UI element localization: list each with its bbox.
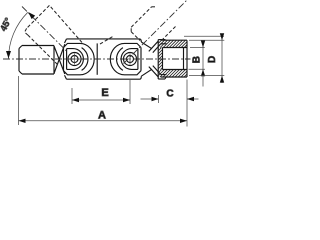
svg-text:C: C [166, 89, 173, 100]
svg-text:A: A [98, 110, 106, 122]
svg-text:D: D [207, 56, 218, 63]
svg-text:E: E [101, 87, 108, 99]
svg-text:B: B [192, 56, 203, 63]
